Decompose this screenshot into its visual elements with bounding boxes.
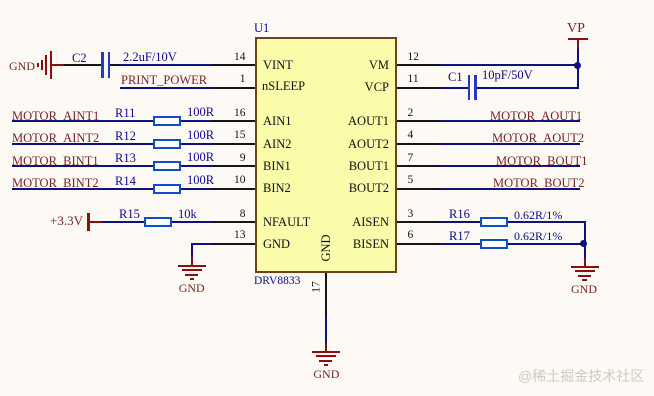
resistor R13 [153, 161, 181, 171]
wire pin 7 out [439, 165, 580, 167]
ground GND (right) [584, 258, 586, 268]
pin name BOUT1 [349, 160, 389, 172]
pin 5 stub [397, 188, 439, 190]
pin name GND (pin 13) [263, 238, 290, 250]
wire R11 to pin 16 [181, 120, 213, 122]
pin 13 number [234, 230, 246, 241]
pin 7 number [408, 153, 414, 164]
wire pin 3 to R16 [439, 221, 480, 223]
resistor R12 [153, 139, 181, 149]
pin 3 stub [397, 221, 439, 223]
pin 8 stub [213, 221, 255, 223]
pin name NFAULT [263, 216, 310, 228]
wire R12 to pin 15 [181, 143, 213, 145]
R11 value 100R [187, 106, 214, 118]
junction dot at R17 node [580, 240, 587, 247]
pin 16 number [234, 108, 246, 119]
wire pin 2 out [439, 120, 580, 122]
R12 value 100R [187, 129, 214, 141]
wire +3.3V to R15 [102, 221, 144, 223]
capacitor C2 [101, 52, 104, 78]
pin 8 number [240, 209, 246, 220]
pin 3 number [408, 209, 414, 220]
op-amp U1 body (DRV8833 IC rectangle) [255, 37, 397, 273]
VP power port [567, 22, 585, 35]
pin 9 stub [213, 165, 255, 167]
pin name nSLEEP [262, 80, 305, 92]
pin 10 stub [213, 188, 255, 190]
C1 value 10pF/50V [482, 69, 533, 81]
R16 value 0.62R/1% [514, 209, 562, 221]
pin 15 number [234, 130, 246, 141]
wire MOTOR_AINT1 to R11 [12, 120, 153, 122]
pin 2 number [408, 108, 414, 119]
pin 17 stub (bottom) [325, 273, 327, 315]
wire pin 6 to R17 [439, 243, 480, 245]
net label MOTOR_BINT1 [12, 155, 99, 168]
wire MOTOR_BINT2 to R14 [12, 188, 153, 190]
pin 15 stub [213, 143, 255, 145]
pin name AISEN [352, 216, 389, 228]
C2 designator [72, 52, 87, 64]
capacitor C1 [468, 75, 471, 100]
pin name VCP [365, 81, 389, 93]
resistor R17 [480, 239, 508, 249]
GND power port (top-left) [9, 60, 35, 72]
pin 2 stub [397, 120, 439, 122]
wire pin 11 to C1 [439, 87, 468, 89]
pin name AIN1 [263, 115, 291, 127]
net label MOTOR_AOUT1 [490, 110, 582, 123]
pin 13 stub [213, 243, 255, 245]
wire MOTOR_AINT2 to R12 [12, 143, 153, 145]
pin 1 stub [213, 87, 255, 89]
wire R14 to pin 10 [181, 188, 213, 190]
pin 14 number [234, 52, 246, 63]
wire R13 to pin 9 [181, 165, 213, 167]
pin 4 stub [397, 143, 439, 145]
C1 designator [448, 71, 463, 83]
wire C2 to pin 14 [120, 64, 213, 66]
wire pin 4 out [439, 143, 580, 145]
R13 value 100R [187, 151, 214, 163]
wire pin 13 to left (horizontal) [191, 243, 213, 245]
U1 value label DRV8833 [254, 275, 300, 287]
wire GND stub to C2 left lead (black) [64, 64, 102, 66]
C2 right lead (black) [110, 64, 120, 66]
net label MOTOR_AINT1 [12, 110, 99, 123]
wire GND to C2 (red stub) [52, 64, 64, 66]
pin name BIN1 [263, 160, 291, 172]
pin 14 stub [213, 64, 255, 66]
net label MOTOR_BOUT1 [496, 155, 587, 168]
wire R15 to pin 8 [172, 221, 213, 223]
wire PRINT_POWER to pin 1 [120, 87, 213, 89]
R14 value 100R [187, 174, 214, 186]
wire pin 13 down [191, 243, 193, 259]
pin 7 stub [397, 165, 439, 167]
net label PRINT_POWER [121, 74, 207, 87]
wire VP node down to VCP row [577, 64, 579, 88]
pin name VINT [263, 59, 293, 71]
wire C1 to VP node [477, 87, 579, 89]
pin name AOUT2 [348, 138, 389, 150]
junction dot at VP node [574, 62, 581, 69]
+3.3V power port [50, 214, 83, 227]
wire junction down to ground [584, 244, 586, 259]
watermark [518, 366, 644, 386]
pin 16 stub [213, 120, 255, 122]
ground GND (left, below pin 13) [191, 257, 193, 267]
pin 11 stub [397, 87, 439, 89]
net label MOTOR_BOUT2 [493, 177, 584, 190]
pin 4 number [408, 130, 414, 141]
U1 designator label [254, 22, 269, 34]
pin 9 number [240, 153, 246, 164]
resistor R16 [480, 217, 508, 227]
wire R16 to right vertical [508, 221, 586, 223]
pin 10 number [234, 175, 246, 186]
pin 11 number [408, 74, 419, 85]
wire +3.3V stub (red) [89, 221, 102, 223]
pin name BIN2 [263, 182, 291, 194]
resistor R11 [153, 116, 181, 126]
ground GND (bottom middle) [325, 343, 327, 353]
wire right vertical (R16 row to R17 row) [584, 221, 586, 244]
pin 12 stub [397, 64, 439, 66]
pin 6 number [408, 230, 414, 241]
R15 value 10k [178, 208, 197, 220]
pin name AOUT1 [348, 115, 389, 127]
pin 12 number [408, 52, 420, 63]
pin 6 stub [397, 243, 439, 245]
wire MOTOR_BINT1 to R13 [12, 165, 153, 167]
pin name AIN2 [263, 138, 291, 150]
wire R17 to right vertical [508, 243, 586, 245]
pin 17 number (vertical) [312, 281, 323, 293]
resistor R15 [144, 217, 172, 227]
pin name GND (pin 17, vertical) [320, 234, 332, 261]
net label MOTOR_AINT2 [12, 132, 99, 145]
pin 1 number [240, 74, 246, 85]
R17 value 0.62R/1% [514, 230, 562, 242]
pin name VM [369, 59, 389, 71]
C2 value 2.2uF/10V [123, 51, 177, 63]
resistor R14 [153, 184, 181, 194]
pin name BOUT2 [349, 182, 389, 194]
net label MOTOR_AOUT2 [492, 132, 584, 145]
pin 5 number [408, 175, 414, 186]
pin name BISEN [353, 238, 389, 250]
net label MOTOR_BINT2 [12, 177, 99, 190]
wire pin 5 out [439, 188, 580, 190]
wire pin 12 to VP junction [439, 64, 579, 66]
wire pin 17 down [325, 315, 327, 344]
